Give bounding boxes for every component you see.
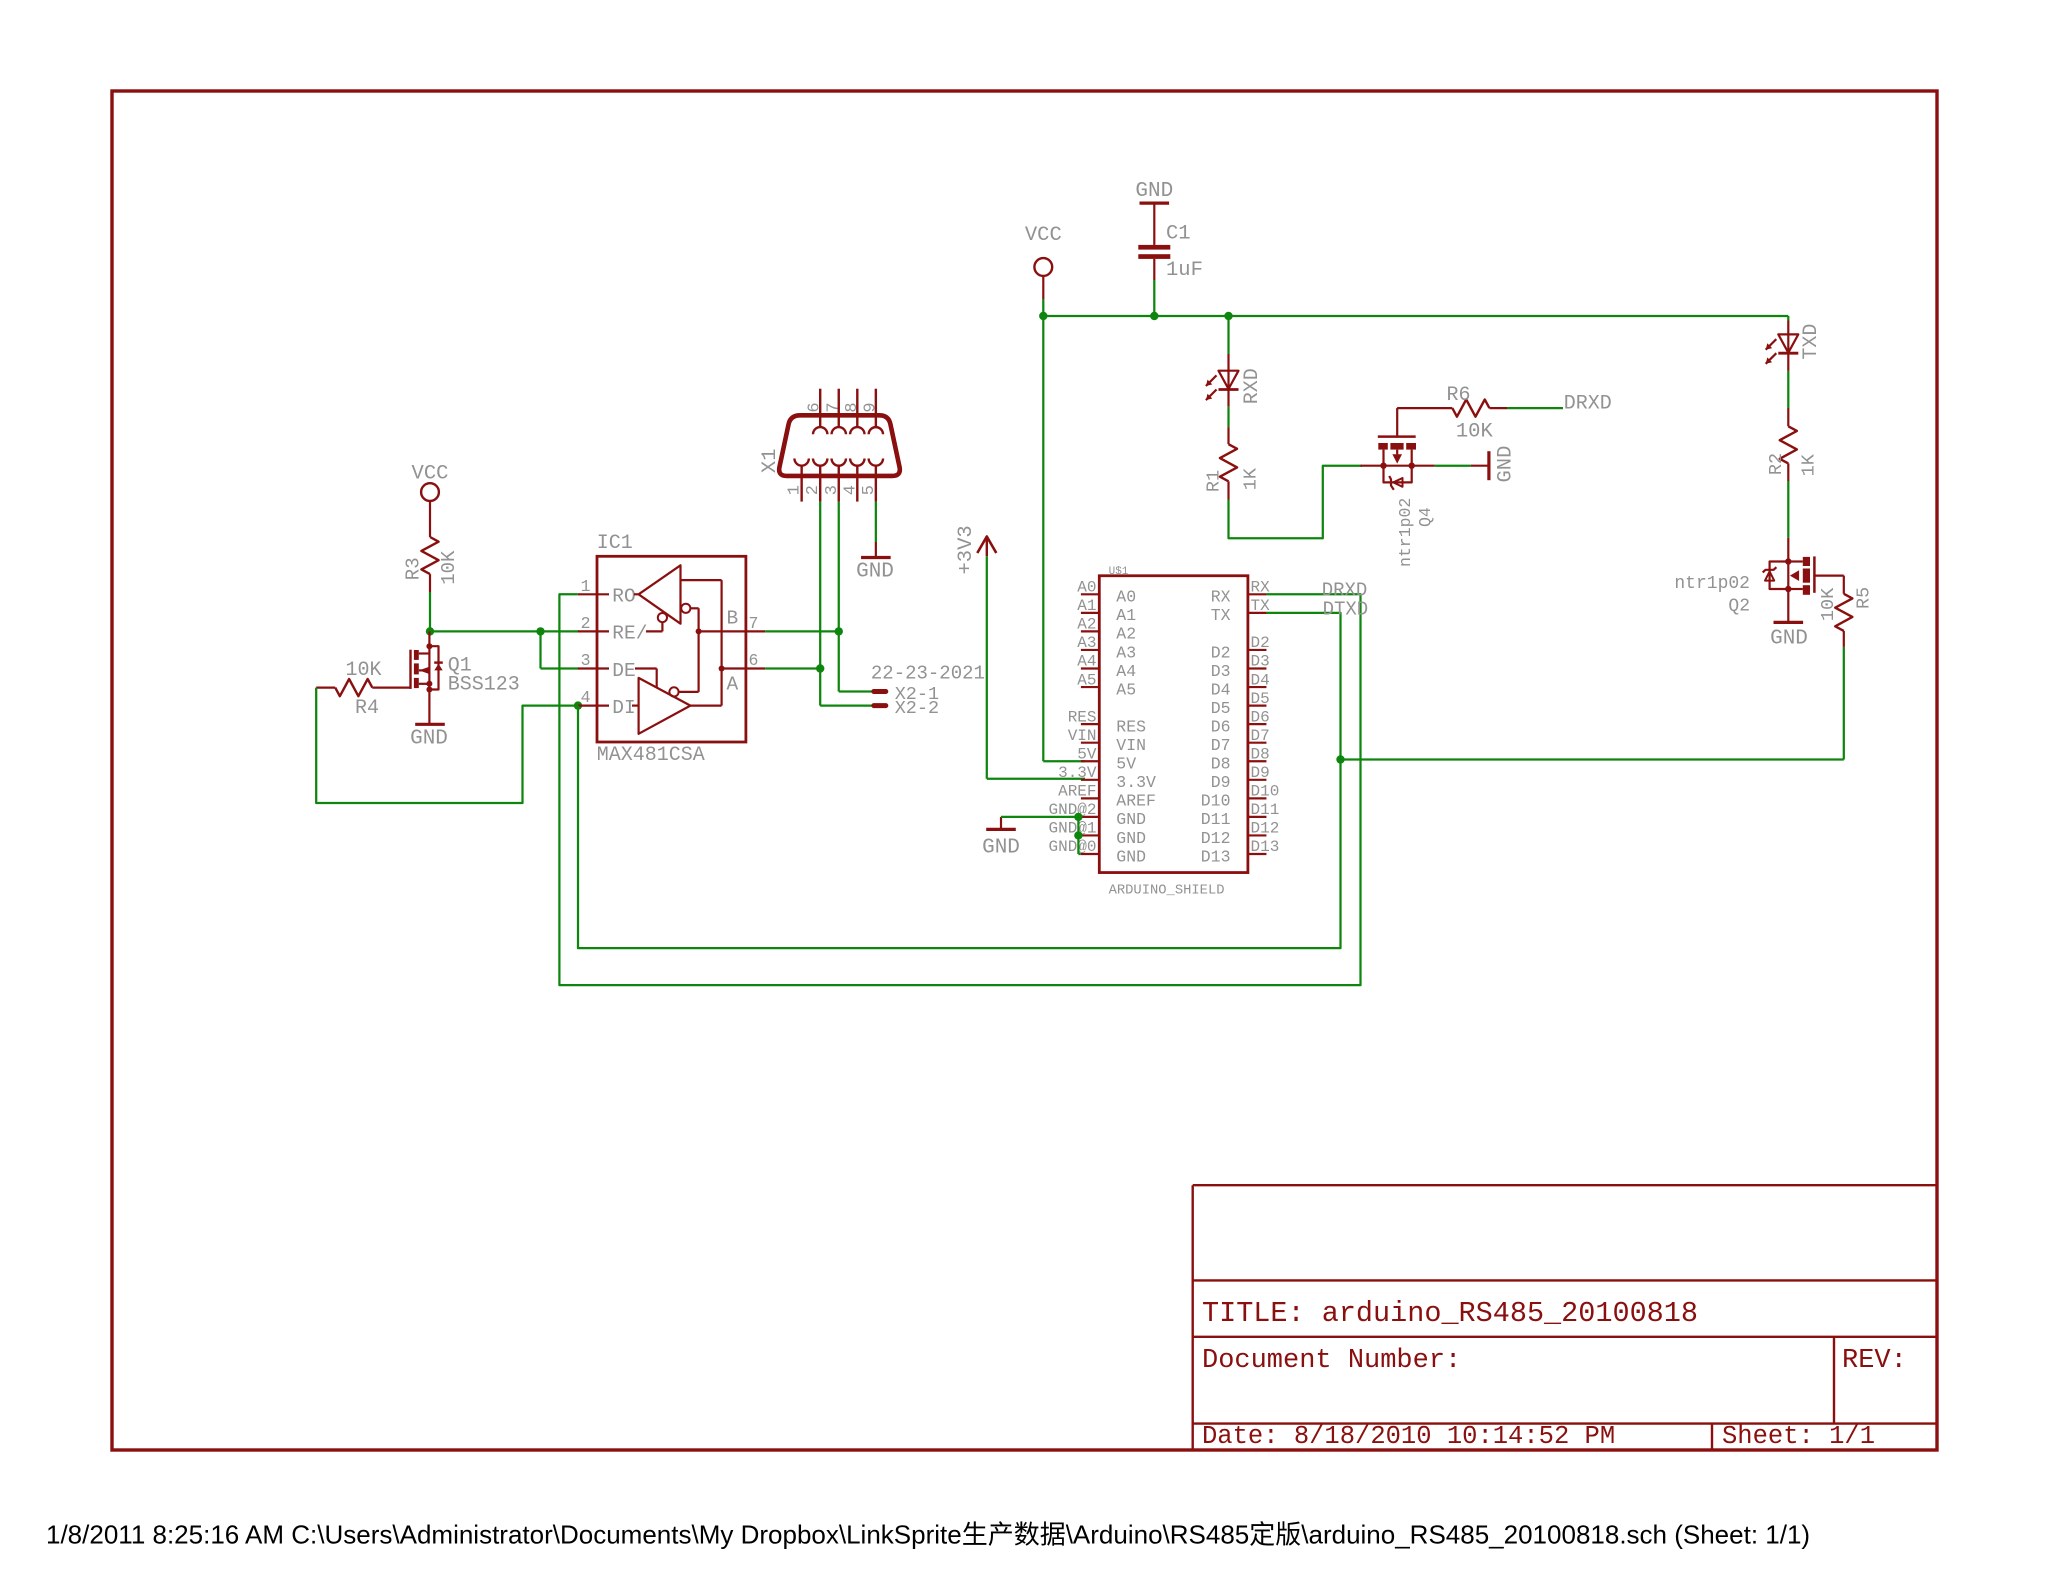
IC1 pin name RO: [612, 586, 635, 608]
U$1 pin name A1 (inside): [1116, 606, 1136, 625]
svg-text:2: 2: [804, 485, 823, 495]
svg-text:1/8/2011 8:25:16 AM C:\Users\: 1/8/2011 8:25:16 AM C:\Users\Administrat…: [46, 1520, 1810, 1550]
svg-text:GND: GND: [1116, 829, 1146, 848]
svg-text:D10: D10: [1251, 783, 1280, 801]
svg-text:U$1: U$1: [1109, 566, 1129, 578]
svg-text:7: 7: [749, 614, 759, 633]
svg-text:GND: GND: [1770, 628, 1808, 651]
U$1 pin label D2 (outside): [1251, 634, 1270, 652]
U$1 pin GND@1 stub: [1081, 834, 1099, 836]
resistor R5: [1835, 594, 1852, 647]
label IC1: [597, 532, 633, 555]
svg-text:6: 6: [806, 402, 825, 412]
wire rail to LED TXD: [1787, 316, 1789, 334]
IC1 pin number 7: [749, 614, 759, 633]
ground below X1: [856, 558, 894, 584]
svg-text:GND@1: GND@1: [1048, 820, 1096, 838]
svg-text:3: 3: [823, 485, 842, 495]
svg-text:1K: 1K: [1241, 467, 1262, 490]
svg-text:5: 5: [860, 485, 879, 495]
label C1 value 1uF: [1166, 259, 1203, 282]
node junction R3/Q1 gate net: [426, 627, 434, 635]
U$1 pin 3.3V stub: [1081, 779, 1099, 781]
svg-text:A1: A1: [1116, 606, 1136, 625]
X1 pin 1 lead: [800, 466, 802, 502]
U$1 pin D5 stub: [1248, 704, 1267, 706]
svg-text:DTXD: DTXD: [1323, 599, 1369, 621]
U$1 pin name D3 (inside): [1211, 662, 1231, 681]
label X1: [759, 448, 782, 473]
U$1 pin A0 stub: [1081, 593, 1099, 595]
svg-text:Q2: Q2: [1728, 596, 1750, 616]
U$1 pin AREF stub: [1081, 797, 1099, 799]
supply VCC (top): [1025, 224, 1062, 276]
capacitor C1: [1138, 203, 1170, 280]
svg-text:A: A: [727, 673, 739, 695]
connector X1 DB9 outline: [779, 415, 900, 476]
net label DRXD (R6): [1564, 393, 1612, 416]
connector U$1 ARDUINO_SHIELD box: [1099, 576, 1248, 873]
svg-text:R5: R5: [1854, 587, 1875, 609]
ground above C1: [1135, 180, 1173, 203]
wire X1 pin5 to ground: [875, 502, 877, 558]
label R5 value 10K: [1818, 587, 1839, 621]
wire VCC down to 5V pin: [1043, 316, 1085, 761]
label R3: [403, 557, 425, 580]
svg-text:D4: D4: [1251, 671, 1270, 689]
svg-text:D2: D2: [1211, 643, 1231, 662]
wire R1 to Q4: [1229, 466, 1363, 539]
U$1 pin name GND (inside): [1116, 829, 1146, 848]
IC1 pin name A: [727, 673, 739, 695]
svg-text:A4: A4: [1077, 653, 1096, 671]
svg-text:GND: GND: [1116, 847, 1146, 866]
node junction rail/C1: [1150, 312, 1158, 320]
wire R2 to Q2: [1787, 481, 1789, 538]
svg-text:D8: D8: [1251, 745, 1270, 763]
node junction GND@1: [1074, 831, 1082, 839]
svg-text:4: 4: [581, 688, 591, 707]
U$1 pin label A4 (outside): [1077, 653, 1096, 671]
title block frame: [1193, 1185, 1937, 1449]
schematic sheet frame: [112, 91, 1937, 1450]
svg-text:A4: A4: [1116, 662, 1136, 681]
svg-text:D7: D7: [1211, 736, 1231, 755]
U$1 pin GND@2 stub: [1081, 816, 1099, 818]
svg-text:D12: D12: [1201, 829, 1231, 848]
U$1 pin label A5 (outside): [1077, 671, 1096, 689]
net label DTXD (U$1): [1323, 599, 1369, 621]
X1 pin number 3: [823, 485, 842, 495]
IC1 pin 2 RE/ stub: [578, 630, 609, 632]
svg-text:RO: RO: [612, 586, 635, 608]
svg-text:5V: 5V: [1116, 755, 1136, 774]
X1 pin 7 contact arc: [832, 427, 846, 434]
resistor R3: [421, 537, 438, 592]
X1 pin 5 contact arc: [869, 459, 883, 466]
IC1 pin 7 B stub: [699, 630, 766, 632]
wire Q4 source to ground: [1435, 465, 1489, 467]
label Q1: [448, 655, 472, 678]
svg-text:D11: D11: [1251, 801, 1280, 819]
svg-text:10K: 10K: [1456, 421, 1494, 444]
U$1 pin name D8 (inside): [1211, 755, 1231, 774]
U$1 pin D6 stub: [1248, 723, 1267, 725]
svg-text:Document Number:: Document Number:: [1202, 1346, 1461, 1376]
svg-text:D2: D2: [1251, 634, 1270, 652]
svg-text:D5: D5: [1211, 699, 1231, 718]
U$1 pin label RES (outside): [1068, 708, 1097, 726]
svg-text:Date: 8/18/2010 10:14:52 PM: Date: 8/18/2010 10:14:52 PM: [1202, 1422, 1615, 1451]
svg-text:RES: RES: [1116, 717, 1146, 736]
U$1 pin name D11 (inside): [1201, 810, 1231, 829]
node junction rail/LED RXD: [1224, 312, 1232, 320]
svg-text:D7: D7: [1251, 727, 1270, 745]
U$1 pin name 5V (inside): [1116, 755, 1136, 774]
svg-text:5V: 5V: [1077, 745, 1097, 763]
svg-text:BSS123: BSS123: [448, 673, 520, 696]
label C1: [1166, 223, 1191, 246]
sheet text: [1722, 1422, 1875, 1451]
LED RXD: [1206, 371, 1239, 400]
label X2 part 22-23-2021: [871, 662, 985, 684]
label R2: [1766, 453, 1787, 475]
transistor Q2 ntr1p02: [1763, 538, 1844, 623]
label X2-2: [895, 698, 939, 719]
svg-text:7: 7: [824, 402, 843, 412]
IC1 internal buffers: [632, 565, 725, 734]
svg-text:X1: X1: [759, 448, 782, 473]
U$1 pin label D10 (outside): [1251, 783, 1280, 801]
wire junction down to DE: [541, 631, 579, 668]
X1 pin 9 contact arc: [869, 427, 883, 434]
U$1 pin D3 stub: [1248, 667, 1267, 669]
svg-text:GND: GND: [1135, 180, 1173, 203]
svg-text:D9: D9: [1211, 773, 1231, 792]
svg-text:A0: A0: [1116, 588, 1136, 607]
IC1 pin name B: [727, 608, 739, 630]
U$1 pin label A3 (outside): [1077, 634, 1096, 652]
X1 pin number 8: [843, 402, 862, 412]
U$1 pin name D2 (inside): [1211, 643, 1231, 662]
U$1 pin label A0 (outside): [1077, 579, 1096, 597]
U$1 pin name D6 (inside): [1211, 717, 1231, 736]
svg-text:8: 8: [843, 402, 862, 412]
U$1 pin name A3 (inside): [1116, 643, 1136, 662]
X1 pin 8 contact arc: [850, 427, 864, 434]
label R5: [1854, 587, 1875, 609]
label Q1 part BSS123: [448, 673, 520, 696]
U$1 pin name D5 (inside): [1211, 699, 1231, 718]
U$1 pin name D13 (inside): [1201, 847, 1231, 866]
wire LED TXD to R2: [1787, 353, 1789, 426]
svg-text:D6: D6: [1251, 708, 1270, 726]
X1 pin 5 lead: [875, 466, 877, 502]
resistor R1: [1220, 444, 1237, 499]
label R6: [1446, 384, 1470, 407]
svg-text:ntr1p02: ntr1p02: [1674, 574, 1750, 594]
label Q2 part ntr1p02: [1674, 574, 1750, 594]
svg-text:B: B: [727, 608, 739, 630]
node junction X1-2/A: [816, 664, 824, 672]
label R1 value 1K: [1241, 467, 1262, 490]
U$1 pin label D5 (outside): [1251, 690, 1270, 708]
ground below Q1: [410, 724, 448, 750]
svg-text:10K: 10K: [345, 659, 381, 682]
svg-text:A5: A5: [1077, 671, 1096, 689]
U$1 pin VIN stub: [1081, 742, 1099, 744]
svg-text:R4: R4: [355, 697, 379, 720]
IC1 pin 1 RO stub: [578, 593, 609, 595]
svg-text:ntr1p02: ntr1p02: [1396, 498, 1415, 567]
ground right of Q4: [1489, 446, 1518, 483]
date text: [1202, 1422, 1615, 1451]
transistor Q1 BSS123: [372, 631, 443, 724]
U$1 pin name D9 (inside): [1211, 773, 1231, 792]
svg-text:3.3V: 3.3V: [1058, 764, 1097, 782]
svg-text:ARDUINO_SHIELD: ARDUINO_SHIELD: [1109, 884, 1225, 899]
IC1 pin number 1: [581, 577, 591, 596]
label R4: [355, 697, 379, 720]
U$1 pin name AREF (inside): [1116, 792, 1156, 811]
resistor R2: [1780, 426, 1797, 481]
wire X1 pin3 to X2-1: [839, 690, 873, 692]
IC1 pin 4 DI stub: [578, 704, 609, 706]
svg-text:RES: RES: [1068, 708, 1097, 726]
U$1 pin name RX (inside): [1211, 588, 1231, 607]
U$1 pin label D9 (outside): [1251, 764, 1270, 782]
U$1 pin label D11 (outside): [1251, 801, 1280, 819]
U$1 pin name D12 (inside): [1201, 829, 1231, 848]
node junction DTXD/R5: [1336, 755, 1344, 763]
U$1 pin label D8 (outside): [1251, 745, 1270, 763]
svg-text:GND: GND: [856, 561, 894, 584]
U$1 pin label D12 (outside): [1251, 820, 1280, 838]
U$1 pin name RES (inside): [1116, 717, 1146, 736]
wire X1 pin2 to A net: [819, 502, 821, 706]
X1 pin 6 lead: [819, 389, 821, 428]
svg-text:D13: D13: [1201, 847, 1231, 866]
ground at U$1 GND pins: [982, 829, 1020, 859]
svg-text:RXD: RXD: [1241, 368, 1264, 404]
label ARDUINO_SHIELD: [1109, 884, 1225, 899]
svg-text:VCC: VCC: [1025, 224, 1062, 247]
svg-text:R2: R2: [1766, 453, 1787, 475]
svg-text:VIN: VIN: [1068, 727, 1097, 745]
U$1 pin label D7 (outside): [1251, 727, 1270, 745]
label Q4 part ntr1p02: [1396, 498, 1415, 567]
X1 pin 8 lead: [856, 389, 858, 428]
X1 pin number 2: [804, 485, 823, 495]
IC1 pin name DI: [612, 697, 635, 719]
svg-text:1uF: 1uF: [1166, 259, 1203, 282]
U$1 pin name GND (inside): [1116, 847, 1146, 866]
svg-text:VIN: VIN: [1116, 736, 1146, 755]
svg-text:D8: D8: [1211, 755, 1231, 774]
U$1 pin label A2 (outside): [1077, 616, 1096, 634]
resistor R4: [316, 679, 372, 696]
svg-text:A2: A2: [1077, 616, 1096, 634]
svg-text:AREF: AREF: [1058, 783, 1096, 801]
U$1 pin D2 stub: [1248, 649, 1267, 651]
document number label: [1202, 1346, 1461, 1376]
U$1 pin A3 stub: [1081, 649, 1099, 651]
op-amp/transceiver IC1 box: [597, 556, 746, 742]
wire VCC to rail: [1042, 276, 1044, 316]
svg-text:A1: A1: [1077, 597, 1096, 615]
svg-text:D11: D11: [1201, 810, 1231, 829]
rev label: [1842, 1346, 1907, 1376]
U$1 pin D4 stub: [1248, 686, 1267, 688]
U$1 pin D9 stub: [1248, 779, 1267, 781]
U$1 pin TX stub: [1248, 612, 1267, 614]
X1 pin number 1: [786, 485, 805, 495]
X1 pin 9 lead: [875, 389, 877, 428]
wire C1 to rail: [1153, 280, 1155, 316]
U$1 pin name D10 (inside): [1201, 792, 1231, 811]
U$1 pin name 3.3V (inside): [1116, 773, 1156, 792]
label U$1: [1109, 566, 1129, 578]
U$1 pin label TX (outside): [1251, 597, 1271, 615]
supply VCC (left): [412, 462, 449, 501]
U$1 pin label D13 (outside): [1251, 838, 1280, 856]
U$1 pin label D3 (outside): [1251, 653, 1270, 671]
svg-text:DRXD: DRXD: [1564, 393, 1612, 416]
label Q2: [1728, 596, 1750, 616]
svg-text:D6: D6: [1211, 717, 1231, 736]
wire ground to GND pins: [1001, 817, 1081, 854]
U$1 pin name A5 (inside): [1116, 680, 1136, 699]
wire rail to LED RXD: [1227, 316, 1229, 371]
terminal X2-2 pin: [874, 703, 886, 708]
U$1 pin D13 stub: [1248, 853, 1267, 855]
supply +3V3 arrow: [977, 537, 996, 557]
net label DRXD (U$1): [1322, 580, 1368, 602]
X1 pin 2 contact arc: [813, 459, 827, 466]
U$1 pin D10 stub: [1248, 797, 1267, 799]
svg-text:1K: 1K: [1799, 453, 1820, 476]
svg-text:4: 4: [841, 485, 860, 495]
X1 pin number 6: [806, 402, 825, 412]
wire X1 pin3 to B net: [838, 502, 840, 692]
U$1 pin A4 stub: [1081, 667, 1099, 669]
svg-text:D3: D3: [1251, 653, 1270, 671]
X1 pin number 5: [860, 485, 879, 495]
svg-text:GND: GND: [410, 728, 448, 751]
svg-text:6: 6: [749, 651, 759, 670]
svg-text:RE/: RE/: [612, 623, 647, 645]
svg-text:+3V3: +3V3: [955, 525, 978, 574]
U$1 pin 5V stub: [1081, 760, 1099, 762]
svg-text:D3: D3: [1211, 662, 1231, 681]
svg-text:22-23-2021: 22-23-2021: [871, 662, 985, 684]
U$1 pin name A4 (inside): [1116, 662, 1136, 681]
svg-text:DE: DE: [612, 660, 635, 682]
svg-text:VCC: VCC: [412, 462, 449, 485]
svg-text:D4: D4: [1211, 680, 1231, 699]
U$1 pin label GND@0 (outside): [1048, 838, 1096, 856]
U$1 pin name A2 (inside): [1116, 625, 1136, 644]
label TXD: [1800, 324, 1823, 360]
U$1 pin name A0 (inside): [1116, 588, 1136, 607]
U$1 pin A1 stub: [1081, 612, 1099, 614]
label RXD: [1241, 368, 1264, 404]
node junction DI/DTXD: [574, 701, 582, 709]
svg-text:GND: GND: [1495, 446, 1518, 483]
U$1 pin D8 stub: [1248, 760, 1267, 762]
node junction RE/DE: [536, 627, 544, 635]
svg-text:R1: R1: [1204, 470, 1225, 492]
svg-text:D9: D9: [1251, 764, 1270, 782]
U$1 pin A5 stub: [1081, 686, 1099, 688]
title text: [1202, 1297, 1698, 1330]
svg-text:MAX481CSA: MAX481CSA: [597, 744, 705, 767]
U$1 pin label GND@2 (outside): [1048, 801, 1096, 819]
U$1 pin label AREF (outside): [1058, 783, 1096, 801]
U$1 pin RES stub: [1081, 723, 1099, 725]
U$1 pin name VIN (inside): [1116, 736, 1146, 755]
U$1 pin name TX (inside): [1211, 606, 1231, 625]
svg-text:A3: A3: [1077, 634, 1096, 652]
wire R6 to DRXD: [1507, 407, 1563, 409]
U$1 pin name D4 (inside): [1211, 680, 1231, 699]
svg-text:C1: C1: [1166, 223, 1191, 246]
transistor Q4 ntr1p02: [1361, 408, 1435, 490]
svg-text:9: 9: [861, 402, 880, 412]
IC1 pin 6 A stub: [722, 667, 766, 669]
wire gate net to RE/: [430, 630, 579, 632]
svg-text:A3: A3: [1116, 643, 1136, 662]
svg-text:R3: R3: [403, 557, 425, 580]
X1 pin number 9: [861, 402, 880, 412]
svg-text:GND: GND: [1116, 810, 1146, 829]
U$1 pin name D7 (inside): [1211, 736, 1231, 755]
U$1 pin label VIN (outside): [1068, 727, 1097, 745]
svg-text:1: 1: [786, 485, 805, 495]
IC1 pin 3 DE stub: [578, 667, 609, 669]
node junction GND@2: [1074, 813, 1082, 821]
svg-text:D12: D12: [1251, 820, 1280, 838]
wire DTXD net: [578, 613, 1341, 948]
label Q4: [1416, 507, 1435, 527]
label R1: [1204, 470, 1225, 492]
label R2 value 1K: [1799, 453, 1820, 476]
svg-text:TXD: TXD: [1800, 324, 1823, 360]
X1 pin 7 lead: [838, 389, 840, 428]
svg-text:X2-2: X2-2: [895, 698, 939, 719]
U$1 pin label 5V (outside): [1077, 745, 1097, 763]
wire DRXD net: [559, 594, 1360, 985]
U$1 pin GND@0 stub: [1081, 853, 1099, 855]
U$1 pin name GND (inside): [1116, 810, 1146, 829]
svg-text:TITLE: arduino_RS485_20100818: TITLE: arduino_RS485_20100818: [1202, 1297, 1698, 1330]
X1 pin 3 lead: [838, 466, 840, 502]
U$1 pin label D4 (outside): [1251, 671, 1270, 689]
terminal X2-1 pin: [874, 689, 886, 694]
IC1 pin number 2: [581, 614, 591, 633]
svg-text:10K: 10K: [438, 550, 460, 585]
svg-text:R6: R6: [1446, 384, 1470, 407]
svg-text:Sheet: 1/1: Sheet: 1/1: [1722, 1422, 1875, 1451]
wire R4 to DI: [316, 688, 578, 803]
U$1 pin D11 stub: [1248, 816, 1267, 818]
U$1 pin D7 stub: [1248, 742, 1267, 744]
X1 pin 3 contact arc: [832, 459, 846, 466]
LED TXD: [1766, 334, 1799, 363]
node junction rail/VCC: [1039, 312, 1047, 320]
svg-text:DI: DI: [612, 697, 635, 719]
svg-text:D13: D13: [1251, 838, 1280, 856]
